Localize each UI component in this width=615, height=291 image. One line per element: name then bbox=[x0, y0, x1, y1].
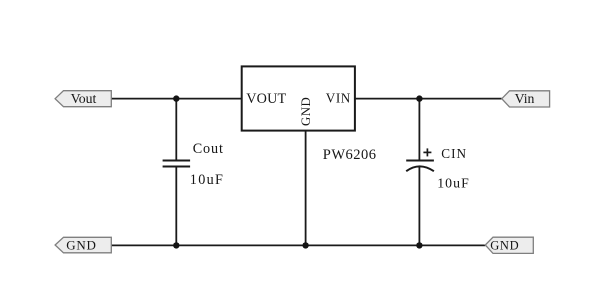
svg-text:GND: GND bbox=[490, 238, 519, 252]
svg-text:10uF: 10uF bbox=[190, 172, 224, 188]
svg-text:GND: GND bbox=[66, 237, 96, 252]
svg-text:VOUT: VOUT bbox=[246, 91, 286, 107]
svg-text:Vout: Vout bbox=[71, 91, 97, 106]
svg-text:PW6206: PW6206 bbox=[323, 147, 377, 163]
svg-text:Vin: Vin bbox=[515, 91, 535, 106]
svg-text:GND: GND bbox=[299, 97, 313, 126]
svg-text:Cout: Cout bbox=[193, 141, 224, 157]
svg-text:VIN: VIN bbox=[326, 91, 351, 106]
svg-text:CIN: CIN bbox=[441, 146, 467, 161]
svg-text:10uF: 10uF bbox=[437, 176, 470, 191]
